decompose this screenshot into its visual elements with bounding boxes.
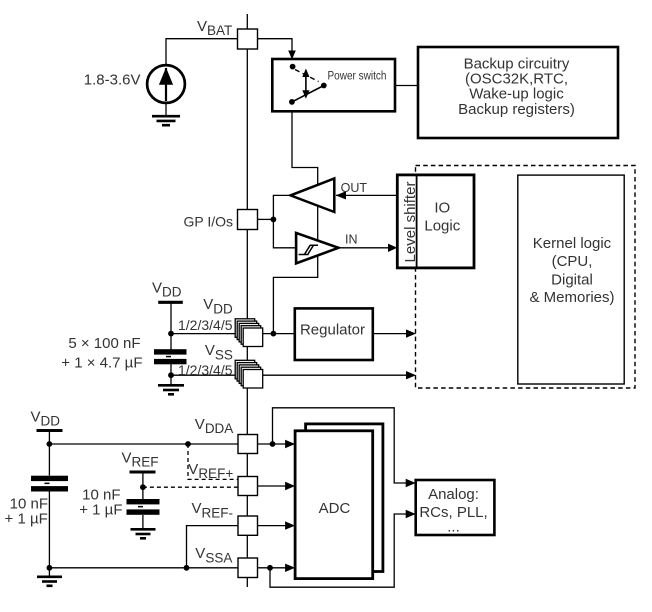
node VREF junction (140, 484, 146, 490)
wire VREF symbol to node (142, 474, 144, 488)
wire IN to level shifter (338, 247, 389, 249)
wire VREF- to ADC (258, 525, 288, 527)
arrow VREF+ to ADC (285, 482, 295, 490)
VDD rail bar bottom left (37, 429, 63, 432)
node VSS cap junction (168, 372, 174, 378)
VDD rail bar (158, 301, 183, 304)
node regulator input junction (271, 331, 277, 337)
svg-text:VDD: VDD (152, 279, 182, 299)
svg-text:Level shifter: Level shifter (402, 182, 419, 263)
wire buffer pad node (273, 195, 296, 247)
ground bottom left (37, 577, 62, 586)
svg-text:Power switch: Power switch (328, 70, 387, 82)
arrow regulator to kernel (406, 329, 416, 337)
wire dashed VREF cap to VREF+ (143, 486, 238, 488)
svg-text:5 × 100 nF: 5 × 100 nF (68, 335, 140, 352)
wire VREF+ to ADC (258, 485, 288, 487)
kernel logic box (518, 175, 624, 384)
svg-text:Analog:: Analog: (428, 486, 479, 503)
pin VREF- (238, 516, 258, 535)
wire VSSA line (49, 567, 238, 569)
wire left cap bottom (48, 492, 50, 577)
wire caps to ground (170, 364, 172, 385)
node VSSA route junction (267, 565, 273, 571)
svg-text:VREF: VREF (122, 449, 159, 469)
arrow into power switch (288, 51, 296, 60)
op-amp IN schmitt buffer (296, 232, 397, 263)
wire VSSA to ADC (258, 567, 288, 569)
kernel logic dashed boundary (416, 166, 636, 389)
svg-text:VDD: VDD (31, 409, 61, 429)
svg-text:Kernel logic: Kernel logic (533, 235, 612, 252)
wire VSS pins line (171, 374, 408, 376)
svg-text:Digital: Digital (551, 271, 593, 288)
wire power switch to VDD node (273, 102, 317, 334)
pin stack VSS 1-5 (235, 360, 263, 388)
switch contact dots (290, 64, 296, 70)
wire VDD symbol bottom left (48, 432, 50, 444)
level shifter / IO logic box (397, 175, 474, 268)
svg-text:+ 1 µF: + 1 µF (79, 502, 122, 519)
node VSSA left junction (47, 565, 53, 571)
arrow VSS to kernel (406, 371, 416, 379)
wire VREF cap (142, 487, 144, 499)
node VDDA left junction (47, 441, 53, 447)
VREF rail bar (130, 471, 156, 474)
node VDDA dashed branch junction (185, 441, 191, 447)
svg-text:Logic: Logic (424, 217, 460, 234)
svg-text:ADC: ADC (319, 500, 351, 517)
wire VDDA line (49, 443, 238, 445)
switch dashed throw (295, 70, 319, 82)
svg-text:VSS: VSS (205, 342, 233, 363)
svg-text:1/2/3/4/5: 1/2/3/4/5 (178, 362, 233, 378)
wire VDD symbol to VDD pins (170, 304, 172, 334)
ground below VREF cap (131, 529, 156, 538)
wire power switch to backup circuitry (324, 85, 418, 87)
wire source to ground (165, 103, 167, 116)
svg-text:...: ... (447, 519, 460, 536)
pin VSSA (238, 558, 258, 578)
node pad junction (271, 217, 277, 223)
wire regulator output (373, 333, 408, 335)
pin VDDA (238, 435, 258, 454)
svg-text:IN: IN (345, 232, 358, 246)
svg-text:1/2/3/4/5: 1/2/3/4/5 (178, 317, 233, 333)
ADC box back (306, 424, 383, 572)
svg-text:OUT: OUT (341, 181, 368, 195)
wire dashed VDDA to VREF+ (188, 444, 238, 479)
node VREF- VSSA junction (184, 565, 190, 571)
pin VBAT (238, 29, 258, 49)
arrow VREF- to ADC (285, 521, 295, 529)
svg-text:+ 1 µF: + 1 µF (5, 511, 48, 528)
ground below cap bank (158, 385, 184, 394)
node VDDA route junction (270, 441, 276, 447)
power switch box (272, 59, 395, 111)
regulator box (295, 308, 373, 360)
svg-text:VREF-: VREF- (192, 500, 234, 521)
wire VREF- to VSSA (187, 526, 239, 568)
svg-text:IO: IO (434, 199, 450, 216)
switch motion double arrow (302, 69, 309, 99)
wire VSSA bottom route to analog (270, 514, 407, 587)
svg-text:& Memories): & Memories) (529, 289, 614, 306)
wire VDD pins to regulator (171, 333, 295, 335)
svg-text:VDD: VDD (203, 296, 233, 317)
node VDD cap junction (168, 331, 174, 337)
voltage source 1.8-3.6V (84, 65, 185, 103)
pin stack VDD 1-5 (235, 319, 263, 347)
svg-text:Backup registers): Backup registers) (458, 101, 575, 118)
ground below source (152, 116, 180, 125)
backup circuitry box (418, 47, 618, 138)
analog box (416, 480, 495, 536)
arrow VSSA to ADC (285, 564, 295, 572)
svg-text:VSSA: VSSA (195, 545, 232, 566)
svg-text:+ 1 × 4.7 µF: + 1 × 4.7 µF (61, 355, 142, 372)
svg-text:VBAT: VBAT (197, 18, 232, 38)
wire GP I/Os pin to buffers (258, 218, 274, 220)
arrow VDDA to ADC (285, 440, 295, 448)
wire VDD node to decoupling caps (170, 334, 172, 350)
pin VREF+ (238, 477, 258, 496)
arrow top route to analog (406, 479, 416, 487)
wire left cap top (48, 444, 50, 476)
wire VREF cap to ground (142, 515, 144, 529)
switch lever (292, 86, 324, 102)
svg-text:(CPU,: (CPU, (552, 253, 593, 270)
capacitor 10nF + 1uF left (5, 476, 68, 528)
wire OUT from level shifter (336, 194, 397, 196)
wire VBAT from source (166, 39, 238, 65)
svg-text:GP I/Os: GP I/Os (183, 214, 233, 230)
wire VDDA to ADC (258, 443, 288, 445)
pin GP I/Os (238, 210, 258, 230)
capacitor 10nF + 1uF VREF (79, 487, 159, 519)
capacitor bank 5x100nF + 4.7uF (61, 335, 186, 372)
wire VDDA top route to analog (273, 408, 408, 483)
arrow bottom route to analog (406, 510, 416, 518)
svg-text:1.8-3.6V: 1.8-3.6V (84, 72, 141, 89)
ADC box front (295, 431, 373, 579)
svg-text:VREF+: VREF+ (188, 461, 233, 481)
svg-text:Regulator: Regulator (300, 322, 365, 339)
op-amp OUT buffer (291, 179, 368, 213)
svg-text:VDDA: VDDA (195, 416, 234, 436)
wire main pin rail (246, 14, 248, 587)
wire VBAT to power switch (258, 39, 293, 51)
